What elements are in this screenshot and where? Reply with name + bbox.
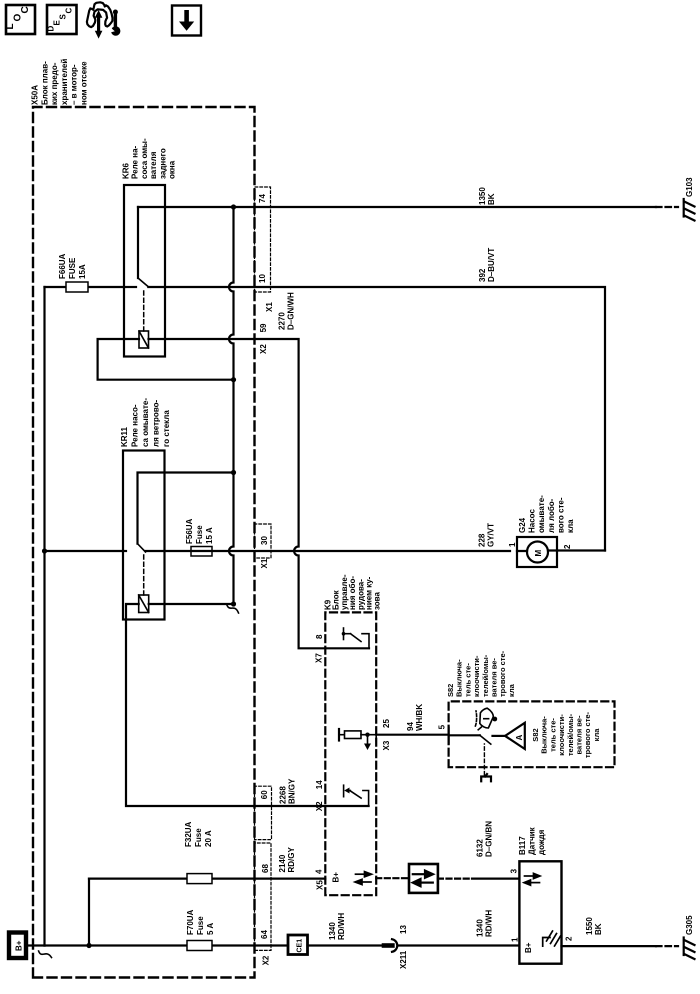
wire S82 blade to triangle A <box>493 735 506 737</box>
wire 1350 BK dashed tail <box>656 206 678 208</box>
svg-text:Fuse: Fuse <box>194 828 203 847</box>
svg-text:D–GN/WH: D–GN/WH <box>286 292 295 330</box>
svg-text:60: 60 <box>260 790 269 799</box>
wire 228 feed F56UA vertical from bus <box>45 550 124 552</box>
svg-text:30: 30 <box>260 536 269 545</box>
wire 6132 dashed below data symbol <box>438 877 472 879</box>
svg-text:тель сте-: тель сте- <box>548 718 557 752</box>
icon down-arrow button <box>172 6 201 36</box>
B117 internal ground symbol <box>543 931 561 946</box>
wire KR6 coil return loop <box>98 339 234 380</box>
label S82 inner <box>531 711 601 758</box>
label relay KR6 <box>122 138 177 179</box>
fuse block X50A boundary <box>33 107 255 978</box>
K9 signal pin 25 symbol with pull-up resistor <box>339 729 376 744</box>
pin tick X3 <box>375 729 377 742</box>
label wire 94 WH/BK <box>406 704 424 731</box>
relay KR6 coil <box>139 331 149 348</box>
svg-text:F70UA: F70UA <box>186 909 195 935</box>
svg-text:са омывате-: са омывате- <box>141 398 150 447</box>
svg-text:ля ветрово-: ля ветрово- <box>152 399 161 447</box>
svg-text:74: 74 <box>258 194 267 203</box>
svg-text:2270: 2270 <box>278 312 287 330</box>
fuse F70UA symbol <box>187 941 212 951</box>
svg-text:вателя ве-: вателя ве- <box>490 658 499 697</box>
wire 2140 feed F32UA vertical <box>89 877 325 879</box>
svg-text:ких предо-: ких предо- <box>50 62 59 105</box>
svg-text:13: 13 <box>399 925 408 934</box>
icon DESC button <box>47 5 77 34</box>
svg-text:трового сте-: трового сте- <box>583 711 592 758</box>
wire 228 GY/VT from KR11 common to pump <box>146 550 511 552</box>
svg-text:клоочисти-: клоочисти- <box>472 655 481 697</box>
svg-text:1340: 1340 <box>476 919 485 937</box>
svg-text:телей/омы-: телей/омы- <box>481 654 490 697</box>
svg-text:F56UA: F56UA <box>185 518 194 544</box>
wire 1350 BK from KR6 NC to ground <box>138 206 656 208</box>
svg-text:D–BU/VT: D–BU/VT <box>487 248 496 282</box>
label wire 1340 RD/WH upper <box>328 913 346 940</box>
svg-text:C: C <box>65 8 74 14</box>
relay KR6 switch blade <box>138 278 148 287</box>
wire branch to F32UA <box>88 879 90 946</box>
svg-text:кла: кла <box>507 683 516 697</box>
wire 392 D-BU/VT from KR6 common to pump <box>148 287 605 551</box>
module K9 dashed box <box>325 612 376 895</box>
relay KR6 box <box>124 185 165 357</box>
svg-text:X3: X3 <box>382 740 391 750</box>
wire 2270 D-GN/WH from KR6 coil to K9 pin 8 <box>149 339 370 648</box>
svg-text:F66UA: F66UA <box>58 253 67 279</box>
svg-text:B+: B+ <box>332 872 341 883</box>
svg-text:вого сте-: вого сте- <box>556 497 565 533</box>
washer pump motor G24 circle M <box>527 542 548 563</box>
S82 case symbol <box>481 774 491 781</box>
svg-text:X1: X1 <box>265 302 274 312</box>
svg-text:BK: BK <box>594 923 603 935</box>
wire B+ bus (horizontal) <box>43 287 45 946</box>
connector X2 dashed box (pin 60) <box>255 786 272 839</box>
connector X1 dashed box (pin 30) <box>255 524 272 558</box>
svg-text:1340: 1340 <box>328 922 337 940</box>
label relay KR11 <box>120 398 171 447</box>
svg-text:68: 68 <box>261 864 270 873</box>
svg-text:1: 1 <box>511 937 520 942</box>
svg-text:C: C <box>20 6 31 13</box>
wire F66UA feed vertical <box>45 286 125 288</box>
svg-text:RD/WH: RD/WH <box>337 913 346 940</box>
svg-text:392: 392 <box>478 268 487 282</box>
wire 1340 feed F70UA vertical <box>45 944 289 946</box>
label fuse F32UA <box>184 821 213 847</box>
S82 blade dashed link to case <box>483 744 485 775</box>
ground G103 <box>684 199 695 221</box>
svg-text:Насос: Насос <box>528 509 537 533</box>
S82 switch blade <box>480 735 491 744</box>
svg-text:94: 94 <box>406 722 415 731</box>
connector X2 dashed box (pin 68) <box>255 843 272 950</box>
wire 94 WH/BK from K9 pin 25 to S82 <box>376 734 448 736</box>
label wire 2270 D-GN/WH <box>278 292 296 330</box>
icon LOC button <box>5 5 35 34</box>
relay KR11 box <box>123 451 165 620</box>
battery B+ terminal symbol <box>9 933 26 959</box>
svg-text:A: A <box>515 735 524 741</box>
wire 6132 D-GN/BN solid to B117 <box>472 877 519 879</box>
svg-text:X211: X211 <box>399 950 408 969</box>
svg-text:25: 25 <box>382 719 391 728</box>
svg-text:зова: зова <box>373 592 382 610</box>
svg-text:8: 8 <box>315 634 324 639</box>
fuse F66UA symbol <box>66 282 88 292</box>
svg-text:X50A: X50A <box>31 85 40 105</box>
svg-text:WH/BK: WH/BK <box>415 704 424 731</box>
wire 1340 RD/WH from X211 to B117 <box>398 944 519 946</box>
relay KR11 NC contact line <box>138 473 234 544</box>
switch S82 dashed box <box>449 701 615 767</box>
wire motor internal stubs <box>517 549 557 552</box>
junction dot ground link KR6 coil return <box>231 377 236 382</box>
svg-text:RD/GY: RD/GY <box>287 847 296 873</box>
svg-text:Выключа-: Выключа- <box>455 659 464 697</box>
svg-text:кла: кла <box>592 728 601 742</box>
svg-text:228: 228 <box>478 533 487 547</box>
wire 1550 BK from B117 pin 2 <box>562 945 657 947</box>
svg-text:B+: B+ <box>524 942 533 953</box>
ground G305 <box>684 938 695 960</box>
label wire 6132 D-GN/BN <box>476 821 494 857</box>
splice squiggle at KR11 coil return <box>227 604 239 613</box>
svg-text:64: 64 <box>260 930 269 939</box>
wire pump G24 pin2 to 392 <box>557 549 605 551</box>
svg-text:S82: S82 <box>531 728 540 741</box>
svg-text:L: L <box>5 23 16 29</box>
inline connector X211 <box>384 939 397 952</box>
K9 driver output pin 8 symbol <box>344 628 370 648</box>
svg-text:B117: B117 <box>518 836 527 855</box>
svg-text:15 A: 15 A <box>205 527 214 544</box>
svg-text:кла: кла <box>566 519 575 533</box>
svg-text:трового сте-: трового сте- <box>498 650 507 697</box>
svg-text:вателя ве-: вателя ве- <box>575 715 584 754</box>
svg-text:2140: 2140 <box>278 854 287 872</box>
svg-text:KR11: KR11 <box>120 426 129 447</box>
wire 1550 BK dashed tail <box>656 945 678 947</box>
svg-text:KR6: KR6 <box>122 162 131 179</box>
svg-text:X2: X2 <box>262 955 271 965</box>
relay KR11 NO contact stub <box>123 550 126 552</box>
wire KR11 coil to 2268 loop <box>126 604 369 806</box>
svg-text:O: O <box>13 14 24 22</box>
relay KR11 coil <box>139 595 149 613</box>
rain sensor B117 box <box>519 861 561 963</box>
label wire 2140 RD/GY <box>278 847 296 873</box>
svg-text:M: M <box>534 550 543 557</box>
svg-text:окна: окна <box>168 160 177 179</box>
svg-text:заднего: заднего <box>158 148 167 179</box>
junction dot ground link KR11 coil return <box>231 601 236 606</box>
label pump G24 <box>518 495 575 533</box>
svg-text:Выключа-: Выключа- <box>540 716 549 754</box>
svg-text:1: 1 <box>508 542 517 547</box>
wire B+ feed down from battery <box>28 944 45 946</box>
svg-text:хранителей: хранителей <box>60 59 69 105</box>
junction dot on B+ vertical at branch <box>86 943 91 948</box>
relay KR6 NC contact line <box>137 207 139 278</box>
connector X1 dashed box (pins 74,10) <box>255 187 271 292</box>
svg-text:D–GN/BN: D–GN/BN <box>484 821 493 857</box>
S82 washer spray icon <box>475 708 493 730</box>
inline fuse CE1 box <box>288 935 308 955</box>
svg-text:Реле насо-: Реле насо- <box>131 404 140 447</box>
svg-text:дождя: дождя <box>537 829 546 855</box>
wire KR11 coil return <box>149 603 234 605</box>
label module K9 <box>324 574 382 610</box>
washer pump motor G24 box <box>517 537 557 567</box>
svg-text:2: 2 <box>563 544 572 549</box>
svg-text:G305: G305 <box>685 915 694 935</box>
icon vehicle with lift arrow and wrench <box>87 2 121 38</box>
junction dot ground link at 74 wire <box>231 204 236 209</box>
svg-text:10: 10 <box>258 274 267 283</box>
label fuse F70UA <box>186 909 215 935</box>
fuse F56UA symbol <box>191 547 212 557</box>
svg-text:X2: X2 <box>315 801 324 811</box>
svg-text:B+: B+ <box>15 940 24 951</box>
K9 driver output pin 14 symbol <box>344 785 369 806</box>
wire 6132 dashed from K9 to data symbol <box>376 877 409 879</box>
svg-text:телей/омы-: телей/омы- <box>566 713 575 756</box>
splice squiggle at B+ junction <box>39 951 52 958</box>
svg-text:S82: S82 <box>446 684 455 697</box>
svg-text:5: 5 <box>438 724 447 729</box>
svg-text:Fuse: Fuse <box>195 525 204 544</box>
label S82 outer <box>446 650 516 697</box>
svg-text:CE1: CE1 <box>297 939 304 953</box>
svg-text:4: 4 <box>315 869 324 874</box>
svg-text:20 A: 20 A <box>204 830 213 847</box>
relay KR11 switch blade <box>138 544 146 552</box>
label wire 1550 BK <box>585 917 603 935</box>
svg-text:Блок плав-: Блок плав- <box>40 61 49 105</box>
label wire 2268 BN/GY <box>279 778 297 804</box>
svg-text:2268: 2268 <box>279 786 288 804</box>
svg-text:соса омы-: соса омы- <box>140 138 149 179</box>
svg-text:F32UA: F32UA <box>184 821 193 847</box>
svg-text:1550: 1550 <box>585 917 594 935</box>
svg-text:6132: 6132 <box>476 839 485 857</box>
svg-text:3: 3 <box>510 868 519 873</box>
svg-text:RD/WH: RD/WH <box>484 910 493 937</box>
svg-text:Fuse: Fuse <box>196 916 205 935</box>
svg-text:X5: X5 <box>316 880 325 890</box>
svg-text:59: 59 <box>259 323 268 332</box>
svg-text:X2: X2 <box>259 344 268 354</box>
junction dot bus to F56UA <box>42 548 47 553</box>
svg-text:5 A: 5 A <box>206 923 215 935</box>
fuse F32UA symbol <box>187 874 212 884</box>
wire ground link from KR6 NC bus (with hops) <box>229 207 234 604</box>
svg-text:GY/VT: GY/VT <box>486 523 495 547</box>
svg-text:– в мотор-: – в мотор- <box>70 64 79 105</box>
label wire 1350 BK <box>478 187 496 205</box>
S82 off-page triangle A <box>505 723 525 749</box>
svg-text:BK: BK <box>487 193 496 205</box>
svg-text:G103: G103 <box>685 177 694 197</box>
relay KR11 coil-to-blade dashed link <box>143 553 145 595</box>
svg-text:BN/GY: BN/GY <box>287 778 296 804</box>
svg-text:G24: G24 <box>518 517 527 533</box>
svg-text:14: 14 <box>315 780 324 789</box>
wire 1340 RD/WH from CE1 to X211 <box>308 944 385 946</box>
label wire 228 GY/VT <box>478 523 496 547</box>
label wire 1340 RD/WH lower <box>476 910 494 937</box>
svg-text:ля лобо-: ля лобо- <box>547 498 556 533</box>
svg-text:вателя: вателя <box>149 151 158 179</box>
svg-text:Датчик: Датчик <box>528 826 537 855</box>
svg-text:ном отсеке: ном отсеке <box>80 61 89 105</box>
svg-text:1350: 1350 <box>478 187 487 205</box>
svg-text:клоочисти-: клоочисти- <box>557 714 566 756</box>
label X50A fuse block <box>31 59 89 105</box>
B117 serial data arrows internal <box>524 873 540 885</box>
relay KR6 NO contact stub <box>124 286 136 288</box>
label fuse F56UA <box>185 518 214 544</box>
svg-text:X1: X1 <box>260 558 269 568</box>
svg-text:тель сте-: тель сте- <box>463 663 472 697</box>
junction dot ground link KR11 NC <box>231 470 236 475</box>
svg-text:15A: 15A <box>78 264 87 279</box>
K9 serial data arrows at edge <box>355 872 372 885</box>
svg-text:Реле на-: Реле на- <box>131 145 140 179</box>
label fuse F66UA <box>58 253 87 279</box>
pin 5 tick S82 <box>448 728 450 744</box>
svg-text:FUSE: FUSE <box>68 257 77 279</box>
svg-text:2: 2 <box>565 936 574 941</box>
label rain sensor B117 <box>518 826 546 855</box>
svg-text:омывате-: омывате- <box>537 495 546 533</box>
svg-text:го стекла: го стекла <box>162 410 171 447</box>
S82 wire into switch <box>449 734 480 736</box>
label wire 392 D-BU/VT <box>478 248 496 282</box>
svg-text:X7: X7 <box>315 653 324 663</box>
relay KR6 coil-to-blade dashed link <box>143 288 145 331</box>
serial data link symbol box <box>409 864 438 893</box>
